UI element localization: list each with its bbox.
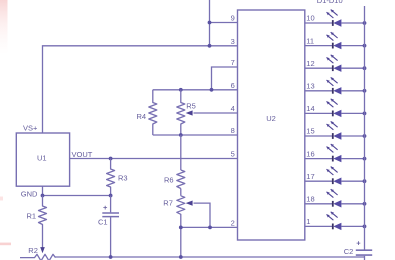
potentiometer R2 (20, 246, 56, 260)
resistor R4 (137, 90, 157, 135)
wire pin9 stub (210, 22, 238, 24)
wire pin2 (181, 226, 238, 228)
svg-text:13: 13 (306, 82, 314, 91)
node junction R5 bottom (179, 133, 183, 137)
LED D2 (305, 32, 367, 49)
resistor R3 (107, 159, 128, 196)
svg-text:R2: R2 (28, 246, 38, 255)
svg-text:4: 4 (231, 104, 235, 113)
node junction R3 top (109, 157, 113, 161)
svg-text:1: 1 (306, 217, 310, 226)
pink smudge bottom-left (0, 243, 11, 246)
LED D3 (305, 55, 367, 72)
svg-text:R7: R7 (163, 199, 173, 208)
wire pin8 rail (153, 134, 238, 136)
svg-text:U1: U1 (37, 154, 47, 163)
LED D10 (305, 212, 367, 230)
svg-text:8: 8 (231, 126, 235, 135)
op-amp U1 box (16, 133, 69, 186)
wire pin6 rail (153, 89, 238, 91)
wiper arrowhead R7 (186, 201, 193, 206)
node junction pin3 (208, 44, 212, 48)
IC U2 (238, 10, 305, 240)
node junction R3 bottom / C1 top (109, 194, 113, 198)
LED D1 (305, 10, 367, 27)
ground rail (55, 256, 365, 258)
svg-text:3: 3 (231, 37, 235, 46)
svg-text:18: 18 (306, 195, 314, 204)
wire VS+ feed (43, 46, 238, 133)
capacitor C2 (344, 239, 373, 260)
svg-text:R4: R4 (137, 112, 147, 121)
svg-text:9: 9 (231, 14, 235, 23)
pink smudge top-left (0, 0, 8, 55)
svg-text:C2: C2 (344, 247, 354, 256)
svg-text:6: 6 (231, 81, 235, 90)
node junction R7 chain bottom (179, 255, 183, 259)
LED D6 (305, 121, 367, 139)
potentiometer R7 (163, 196, 185, 257)
svg-text:C1: C1 (98, 217, 108, 226)
wiper arrowhead R5 (186, 110, 193, 115)
node junction GND (41, 194, 45, 198)
wire GND rail (43, 186, 111, 195)
svg-text:+: + (103, 203, 108, 212)
svg-text:R1: R1 (27, 212, 37, 221)
LED D7 (305, 144, 367, 162)
svg-text:VOUT: VOUT (72, 150, 93, 159)
svg-text:10: 10 (306, 14, 314, 23)
wire VOUT to pin5 (70, 158, 238, 160)
node junction C1 bottom (109, 255, 113, 259)
svg-text:12: 12 (306, 59, 314, 68)
svg-text:R6: R6 (164, 175, 174, 184)
svg-text:17: 17 (306, 172, 314, 181)
LED D4 (305, 77, 367, 94)
svg-text:7: 7 (231, 58, 235, 67)
svg-text:16: 16 (306, 149, 314, 158)
svg-text:R3: R3 (118, 174, 128, 183)
wire pin4 wiper (194, 112, 238, 114)
wire R5 bottom to R6 (180, 135, 182, 170)
capacitor C1 (98, 196, 119, 258)
svg-text:R5: R5 (186, 102, 196, 111)
node junction pin9 (208, 21, 212, 25)
node junction R7 bottom (179, 226, 183, 230)
svg-text:VS+: VS+ (23, 124, 38, 133)
wire R7 wiper (194, 203, 211, 227)
wire top vertical (209, 0, 211, 46)
resistor R1 (27, 196, 47, 248)
wire R6 to R7 (180, 189, 182, 196)
node junction pin7/pin6 (210, 88, 214, 92)
wiper arrowhead onto R2 (40, 247, 45, 253)
svg-text:11: 11 (306, 36, 314, 45)
LED D8 (305, 167, 367, 185)
svg-text:14: 14 (306, 104, 314, 113)
svg-text:GND: GND (21, 189, 38, 198)
svg-text:D1-D10: D1-D10 (317, 0, 343, 5)
LED D9 (305, 189, 367, 207)
LED D5 (305, 99, 367, 117)
svg-text:5: 5 (231, 149, 235, 158)
svg-text:2: 2 (231, 218, 235, 227)
svg-text:+: + (356, 239, 361, 248)
resistor R6 (164, 170, 185, 189)
svg-text:U2: U2 (266, 114, 276, 123)
wire LED bus (364, 6, 366, 250)
node junction R5 top (179, 88, 183, 92)
svg-text:15: 15 (306, 127, 314, 136)
wire pin7 (212, 67, 238, 90)
potentiometer R5 (177, 90, 196, 135)
node junction wiper (208, 226, 212, 230)
